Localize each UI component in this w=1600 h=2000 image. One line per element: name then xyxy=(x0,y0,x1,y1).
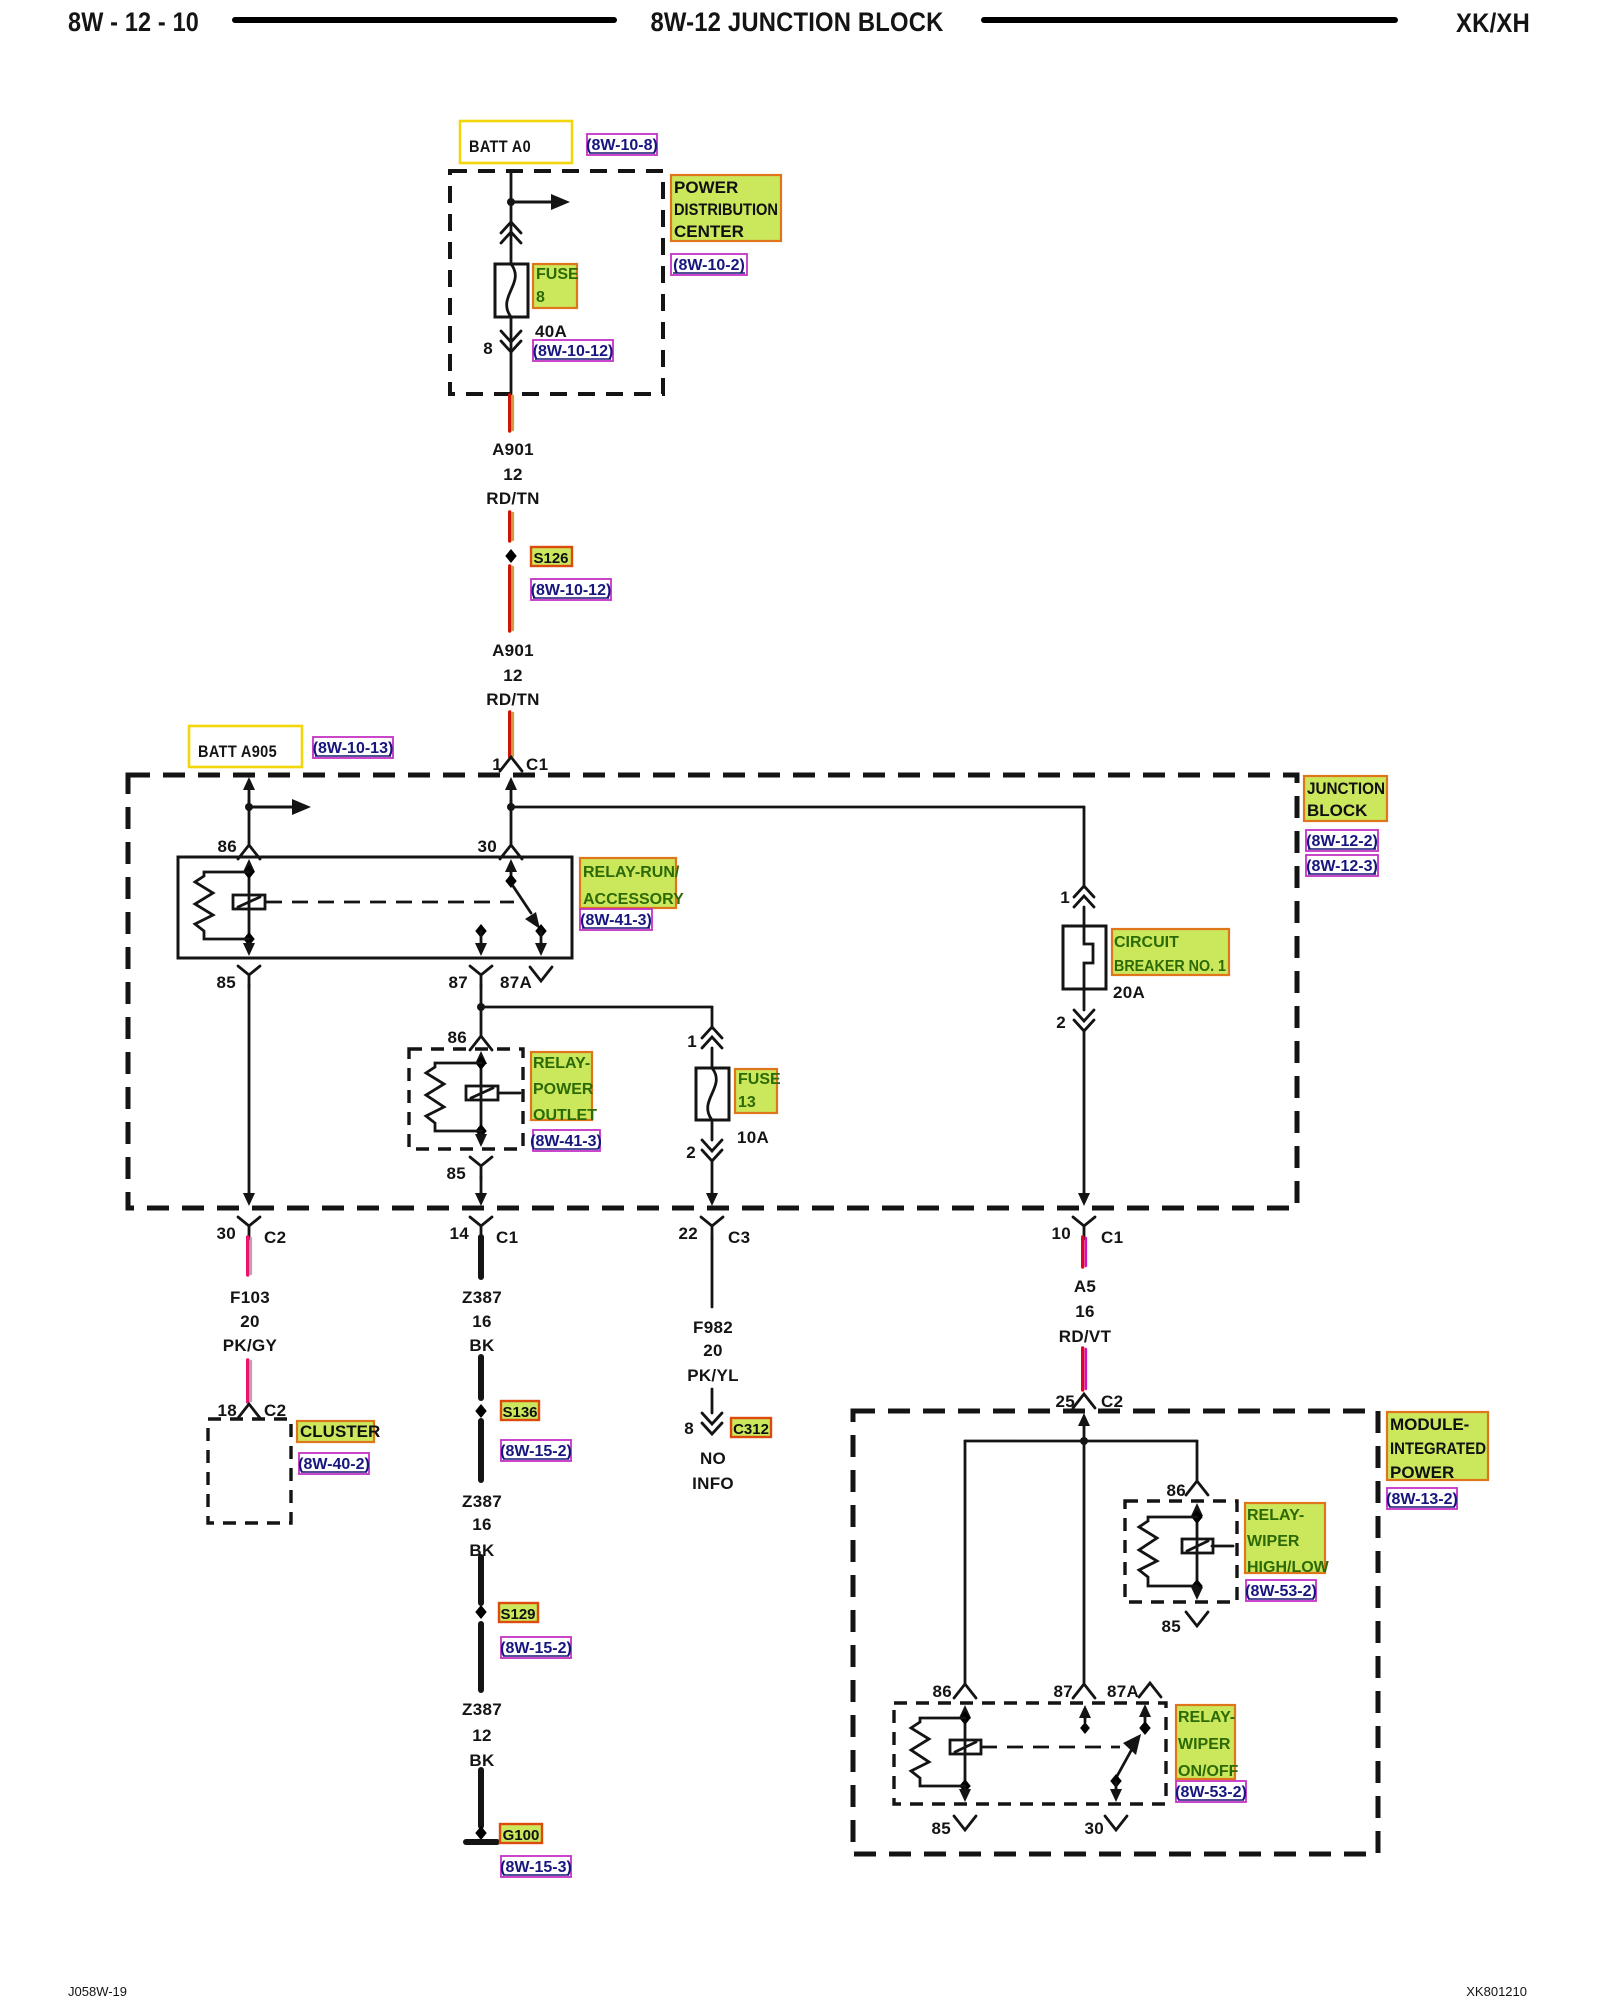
svg-text:A901: A901 xyxy=(492,641,534,660)
svg-text:G100: G100 xyxy=(503,1827,540,1844)
svg-text:C2: C2 xyxy=(264,1401,287,1420)
svg-text:CLUSTER: CLUSTER xyxy=(300,1422,380,1441)
svg-text:RELAY-: RELAY- xyxy=(1178,1709,1235,1726)
svg-text:2: 2 xyxy=(686,1143,696,1162)
svg-text:20: 20 xyxy=(240,1312,260,1331)
svg-text:CENTER: CENTER xyxy=(674,222,744,241)
svg-text:12: 12 xyxy=(472,1726,492,1745)
svg-text:PK/GY: PK/GY xyxy=(223,1336,278,1355)
svg-text:RELAY-: RELAY- xyxy=(1247,1507,1304,1524)
svg-text:S129: S129 xyxy=(500,1606,535,1623)
svg-text:HIGH/LOW: HIGH/LOW xyxy=(1247,1559,1330,1576)
svg-text:RD/TN: RD/TN xyxy=(486,690,539,709)
svg-text:Z387: Z387 xyxy=(462,1288,502,1307)
svg-text:87A: 87A xyxy=(500,973,532,992)
svg-text:C2: C2 xyxy=(1101,1392,1124,1411)
svg-text:(8W-12-2): (8W-12-2) xyxy=(1306,833,1378,850)
svg-text:85: 85 xyxy=(931,1819,951,1838)
svg-text:BATT A0: BATT A0 xyxy=(469,137,531,156)
svg-text:16: 16 xyxy=(472,1312,492,1331)
svg-text:10: 10 xyxy=(1051,1224,1071,1243)
svg-text:8W - 12 - 10: 8W - 12 - 10 xyxy=(68,7,199,37)
svg-text:40A: 40A xyxy=(535,322,567,341)
svg-text:12: 12 xyxy=(503,666,523,685)
svg-text:8: 8 xyxy=(684,1419,694,1438)
svg-text:POWER: POWER xyxy=(674,178,738,197)
svg-text:OUTLET: OUTLET xyxy=(533,1107,597,1124)
svg-text:22: 22 xyxy=(678,1224,698,1243)
svg-text:RELAY-: RELAY- xyxy=(533,1055,590,1072)
svg-text:20A: 20A xyxy=(1113,983,1145,1002)
svg-text:C1: C1 xyxy=(496,1228,519,1247)
svg-text:F103: F103 xyxy=(230,1288,270,1307)
svg-text:18: 18 xyxy=(217,1401,237,1420)
svg-text:NO: NO xyxy=(700,1449,726,1468)
svg-text:86: 86 xyxy=(447,1028,467,1047)
svg-text:86: 86 xyxy=(217,837,237,856)
svg-text:RD/TN: RD/TN xyxy=(486,489,539,508)
svg-text:FUSE: FUSE xyxy=(536,266,579,283)
svg-text:JUNCTION: JUNCTION xyxy=(1307,779,1385,798)
svg-text:87: 87 xyxy=(448,973,468,992)
svg-text:(8W-12-3): (8W-12-3) xyxy=(1306,858,1378,875)
svg-text:C1: C1 xyxy=(526,755,549,774)
svg-text:16: 16 xyxy=(472,1515,492,1534)
svg-text:(8W-10-8): (8W-10-8) xyxy=(586,137,658,154)
svg-text:PK/YL: PK/YL xyxy=(687,1366,739,1385)
svg-text:C1: C1 xyxy=(1101,1228,1124,1247)
svg-text:ACCESSORY: ACCESSORY xyxy=(583,891,684,908)
svg-text:2: 2 xyxy=(1056,1013,1066,1032)
svg-text:BK: BK xyxy=(469,1336,495,1355)
svg-text:BK: BK xyxy=(469,1751,495,1770)
svg-text:XK801210: XK801210 xyxy=(1466,1984,1527,1999)
svg-text:13: 13 xyxy=(738,1094,756,1111)
svg-text:S136: S136 xyxy=(502,1404,537,1421)
svg-text:(8W-10-12): (8W-10-12) xyxy=(531,582,612,599)
svg-text:85: 85 xyxy=(216,973,236,992)
svg-text:BATT A905: BATT A905 xyxy=(198,742,277,761)
svg-text:S126: S126 xyxy=(533,550,568,567)
svg-text:MODULE-: MODULE- xyxy=(1390,1415,1469,1434)
svg-text:DISTRIBUTION: DISTRIBUTION xyxy=(674,200,778,219)
svg-text:RD/VT: RD/VT xyxy=(1059,1327,1112,1346)
svg-text:J058W-19: J058W-19 xyxy=(68,1984,127,1999)
svg-text:10A: 10A xyxy=(737,1128,769,1147)
svg-text:C312: C312 xyxy=(733,1421,769,1438)
svg-text:(8W-15-2): (8W-15-2) xyxy=(500,1640,572,1657)
svg-text:Z387: Z387 xyxy=(462,1492,502,1511)
svg-text:(8W-10-12): (8W-10-12) xyxy=(533,343,614,360)
svg-text:(8W-15-2): (8W-15-2) xyxy=(500,1443,572,1460)
svg-text:ON/OFF: ON/OFF xyxy=(1178,1763,1239,1780)
svg-text:8: 8 xyxy=(536,289,545,306)
svg-text:30: 30 xyxy=(477,837,497,856)
svg-text:BLOCK: BLOCK xyxy=(1307,801,1368,820)
svg-text:20: 20 xyxy=(703,1341,723,1360)
svg-text:(8W-53-2): (8W-53-2) xyxy=(1175,1784,1247,1801)
svg-text:WIPER: WIPER xyxy=(1247,1533,1300,1550)
svg-text:1: 1 xyxy=(1060,888,1070,907)
svg-text:87A: 87A xyxy=(1107,1682,1139,1701)
svg-text:C3: C3 xyxy=(728,1228,751,1247)
svg-text:8: 8 xyxy=(483,339,493,358)
svg-text:F982: F982 xyxy=(693,1318,733,1337)
svg-text:8W-12 JUNCTION BLOCK: 8W-12 JUNCTION BLOCK xyxy=(651,7,944,37)
svg-text:(8W-15-3): (8W-15-3) xyxy=(500,1859,572,1876)
svg-text:30: 30 xyxy=(216,1224,236,1243)
svg-text:C2: C2 xyxy=(264,1228,287,1247)
svg-text:85: 85 xyxy=(446,1164,466,1183)
svg-text:POWER: POWER xyxy=(1390,1463,1454,1482)
svg-text:A5: A5 xyxy=(1074,1277,1096,1296)
svg-text:30: 30 xyxy=(1084,1819,1104,1838)
svg-text:12: 12 xyxy=(503,465,523,484)
svg-text:FUSE: FUSE xyxy=(738,1071,781,1088)
svg-text:(8W-41-3): (8W-41-3) xyxy=(580,912,652,929)
svg-text:WIPER: WIPER xyxy=(1178,1736,1231,1753)
svg-text:1: 1 xyxy=(687,1032,697,1051)
svg-text:A901: A901 xyxy=(492,440,534,459)
svg-text:Z387: Z387 xyxy=(462,1700,502,1719)
svg-text:85: 85 xyxy=(1161,1617,1181,1636)
svg-text:(8W-53-2): (8W-53-2) xyxy=(1245,1583,1317,1600)
svg-text:XK/XH: XK/XH xyxy=(1456,8,1530,38)
svg-text:16: 16 xyxy=(1075,1302,1095,1321)
svg-text:INFO: INFO xyxy=(692,1474,734,1493)
svg-text:14: 14 xyxy=(449,1224,469,1243)
svg-text:(8W-41-3): (8W-41-3) xyxy=(530,1133,602,1150)
svg-text:CIRCUIT: CIRCUIT xyxy=(1114,934,1179,951)
svg-text:INTEGRATED: INTEGRATED xyxy=(1390,1439,1486,1458)
svg-text:POWER: POWER xyxy=(533,1081,594,1098)
svg-text:RELAY-RUN/: RELAY-RUN/ xyxy=(583,864,680,881)
svg-text:87: 87 xyxy=(1053,1682,1073,1701)
svg-text:(8W-10-13): (8W-10-13) xyxy=(313,740,394,757)
svg-text:86: 86 xyxy=(1166,1481,1186,1500)
svg-text:BREAKER NO. 1: BREAKER NO. 1 xyxy=(1114,958,1226,975)
svg-text:(8W-13-2): (8W-13-2) xyxy=(1386,1491,1458,1508)
svg-text:86: 86 xyxy=(932,1682,952,1701)
svg-text:(8W-10-2): (8W-10-2) xyxy=(673,257,745,274)
svg-text:(8W-40-2): (8W-40-2) xyxy=(298,1456,370,1473)
